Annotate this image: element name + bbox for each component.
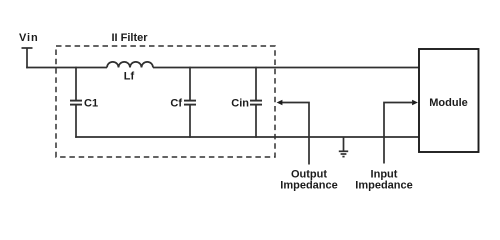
terminal Vin T-bar [22,47,33,49]
inductor Lf [107,62,153,68]
svg-text:II Filter: II Filter [111,32,148,44]
arrowhead output impedance (points left) [277,100,283,106]
capacitor Cf plates [184,100,196,102]
capacitor Cf top lead [189,67,191,100]
wire bottom rail [75,136,419,138]
wire top rail left segment [26,67,107,69]
capacitor Cin top lead [255,67,257,100]
label Input Impedance [355,169,412,192]
capacitor Cin plates [250,100,262,102]
ground stub [343,137,345,152]
wire top rail right segment [153,67,419,69]
dashed filter enclosure box [56,46,275,157]
svg-text:Cin: Cin [231,98,249,110]
svg-text:Impedance: Impedance [280,180,337,192]
capacitor C1 plates [70,100,82,102]
svg-text:C1: C1 [84,98,98,110]
ground bar 1 [339,150,348,152]
svg-text:Vin: Vin [19,32,39,44]
ground bar 2 [341,153,347,155]
capacitor Cf bottom lead [189,105,191,138]
ground bar 3 [342,156,344,158]
svg-text:Cf: Cf [170,98,182,110]
svg-text:Module: Module [429,97,468,109]
label Output Impedance [280,169,337,192]
svg-text:Impedance: Impedance [355,180,412,192]
wire output impedance probe [281,103,309,165]
arrowhead input impedance (points right) [412,100,418,106]
capacitor Cin bottom lead [255,105,257,138]
module box U1 [419,49,479,152]
svg-text:Lf: Lf [124,71,135,83]
capacitor C1 top lead [75,67,77,100]
wire input impedance probe [384,103,412,164]
wire Vin vertical [26,48,28,68]
capacitor C1 bottom lead [75,105,77,138]
